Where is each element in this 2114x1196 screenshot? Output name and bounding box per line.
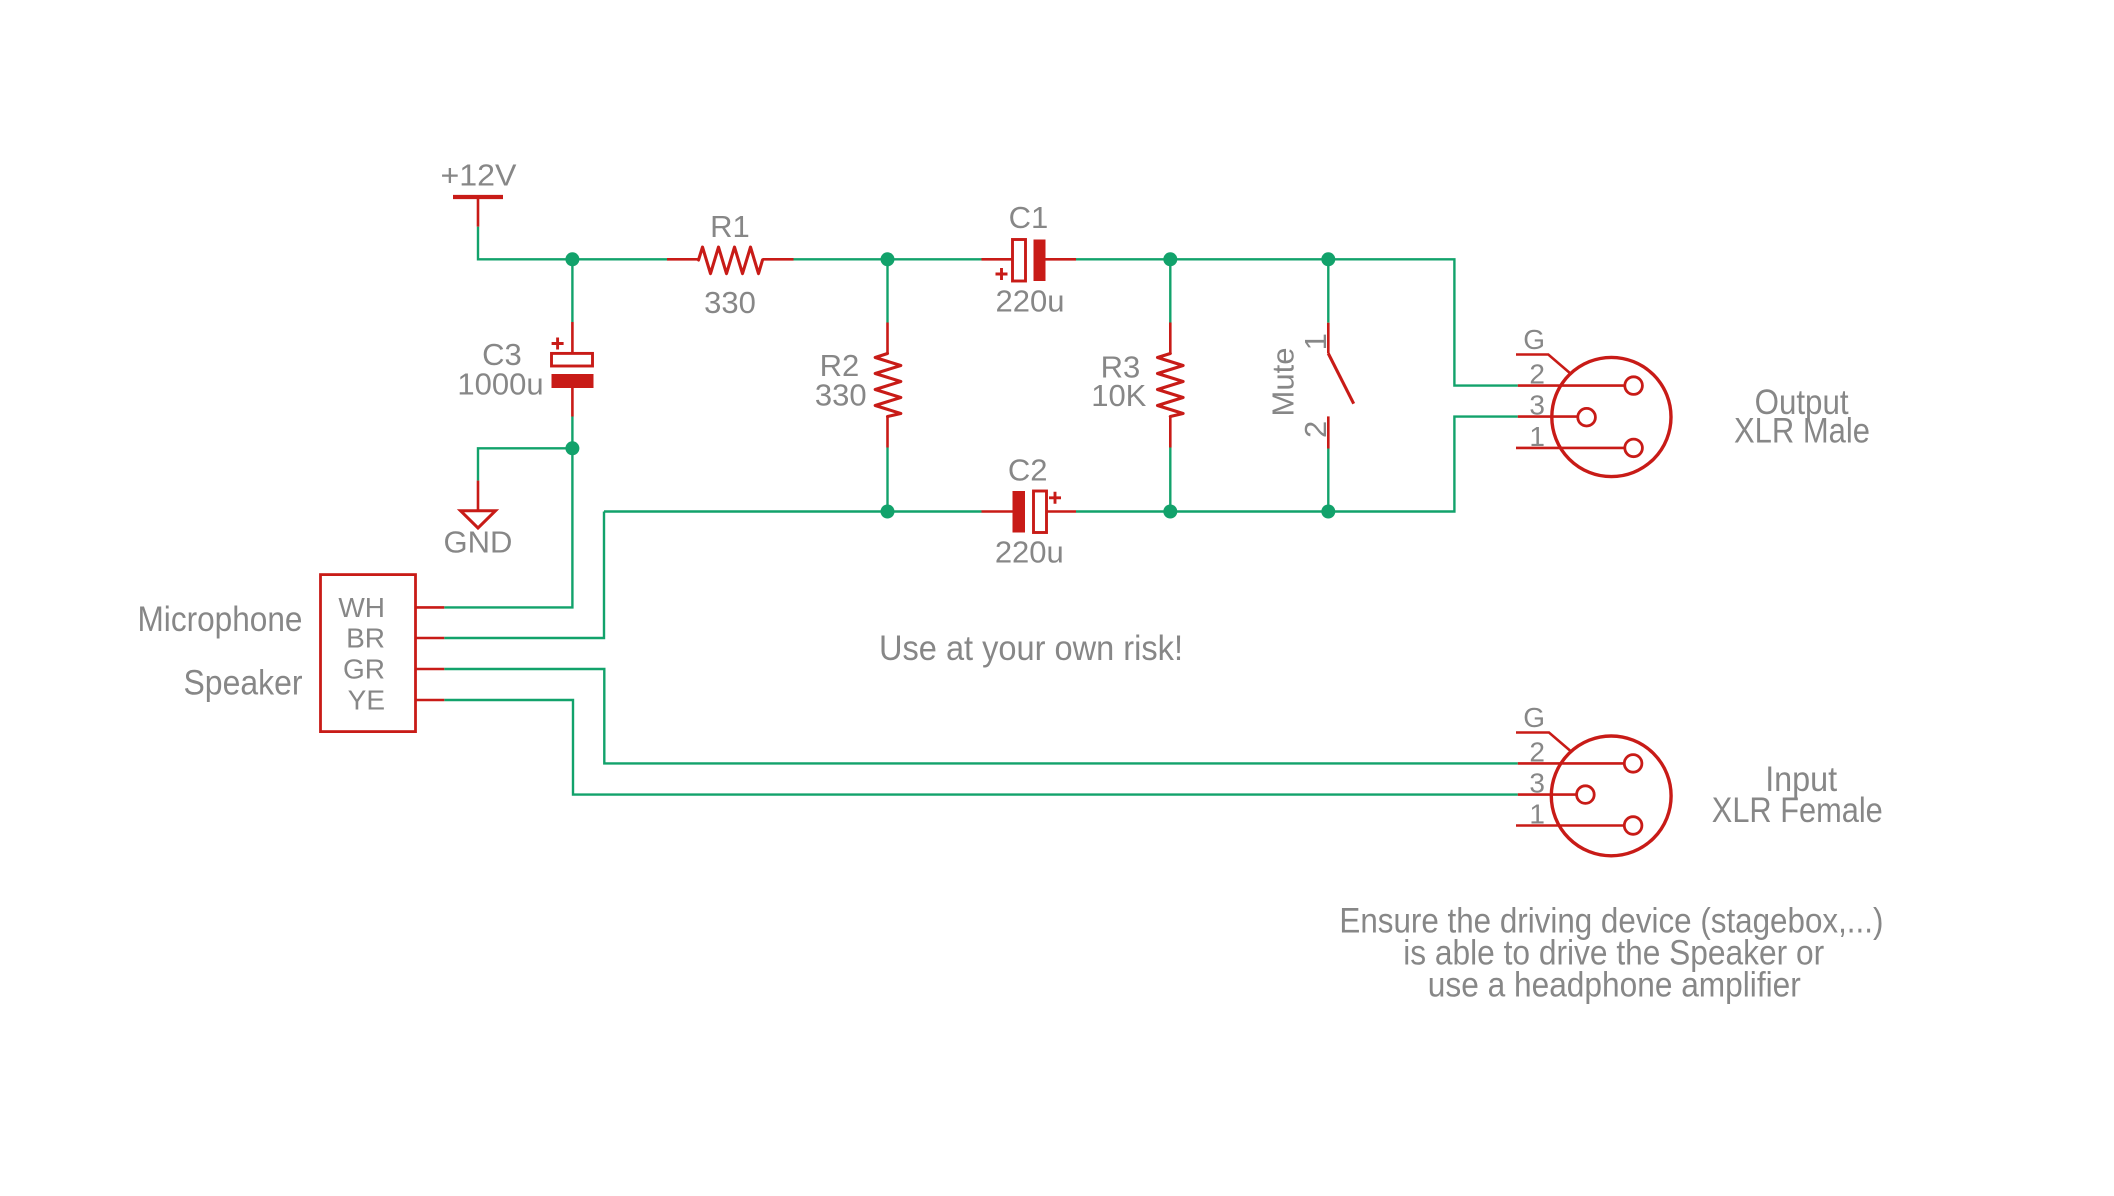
wire Mute bottom [1327, 449, 1329, 512]
connector box Microphone/Speaker [321, 575, 445, 732]
wire bottom rail left of C2 [604, 510, 982, 512]
wire R2 top [886, 259, 888, 322]
ground GND symbol [461, 481, 496, 528]
svg-text:3: 3 [1529, 390, 1545, 421]
wire YE pin to XLR female pin 3 [444, 700, 1518, 795]
resistor R3 [1158, 323, 1184, 448]
wire C3 bottom through node to WH pin [444, 417, 572, 608]
svg-text:1: 1 [1298, 333, 1333, 350]
svg-text:Microphone: Microphone [138, 600, 303, 639]
wire R3 bottom [1169, 448, 1171, 512]
svg-text:Speaker: Speaker [184, 664, 303, 703]
svg-text:330: 330 [815, 378, 867, 413]
wire Mute top [1327, 259, 1329, 322]
switch Mute [1328, 323, 1353, 449]
capacitor C3 [552, 322, 594, 417]
svg-text:Use at your own risk!: Use at your own risk! [879, 629, 1183, 668]
wire GR pin to XLR female pin 2 [444, 669, 1518, 763]
svg-text:GND: GND [444, 524, 513, 559]
svg-text:GR: GR [343, 654, 385, 685]
wire top rail right of C1 to XLR male pin 2 [1076, 259, 1518, 385]
wire C3 top from rail [571, 259, 573, 322]
svg-text:XLR Male: XLR Male [1734, 412, 1870, 451]
node top rail / R2 [881, 252, 895, 266]
svg-text:1000u: 1000u [457, 366, 543, 401]
supply +12V symbol [453, 197, 503, 227]
capacitor C1 [982, 240, 1077, 282]
node bottom rail / Mute [1321, 505, 1335, 519]
node C3 / GND / WH [565, 441, 579, 455]
wire node to GND [478, 448, 572, 480]
svg-text:220u: 220u [996, 284, 1065, 319]
svg-text:220u: 220u [995, 535, 1064, 570]
svg-text:WH: WH [338, 592, 385, 623]
svg-text:+12V: +12V [441, 157, 517, 192]
svg-text:2: 2 [1529, 736, 1545, 767]
wire +12V stem to top rail [478, 227, 667, 260]
wire R3 top [1169, 259, 1171, 322]
resistor R1 [667, 247, 794, 274]
svg-text:3: 3 [1529, 768, 1545, 799]
svg-text:XLR Female: XLR Female [1712, 791, 1883, 830]
resistor R2 [875, 323, 901, 448]
wire bottom rail left end to BR pin [444, 512, 604, 639]
svg-text:Mute: Mute [1266, 348, 1301, 417]
svg-text:G: G [1523, 702, 1545, 733]
svg-text:C1: C1 [1009, 200, 1049, 235]
svg-text:1: 1 [1529, 799, 1545, 830]
svg-text:1: 1 [1529, 421, 1545, 452]
wire bottom rail right of C2 to XLR male pin 3 [1076, 417, 1518, 512]
capacitor C2 [982, 491, 1077, 533]
connector U$2 Output XLR Male [1516, 355, 1671, 477]
connector U$3 Input XLR Female [1516, 733, 1671, 856]
svg-text:YE: YE [348, 685, 385, 716]
svg-text:2: 2 [1298, 421, 1333, 438]
svg-text:R1: R1 [710, 209, 750, 244]
node top rail / Mute [1321, 252, 1335, 266]
node bottom rail / R3 [1163, 505, 1177, 519]
svg-text:2: 2 [1529, 359, 1545, 390]
svg-text:330: 330 [704, 285, 756, 320]
wire R2 bottom [886, 448, 888, 512]
svg-text:10K: 10K [1091, 378, 1146, 413]
node bottom rail / R2 [881, 505, 895, 519]
svg-text:C2: C2 [1008, 452, 1048, 487]
svg-text:G: G [1523, 324, 1545, 355]
svg-text:use a headphone amplifier: use a headphone amplifier [1428, 966, 1801, 1005]
wire top rail right of R1 [794, 258, 982, 260]
node top rail / C3 [565, 252, 579, 266]
node top rail / R3 [1163, 252, 1177, 266]
svg-text:BR: BR [346, 623, 385, 654]
